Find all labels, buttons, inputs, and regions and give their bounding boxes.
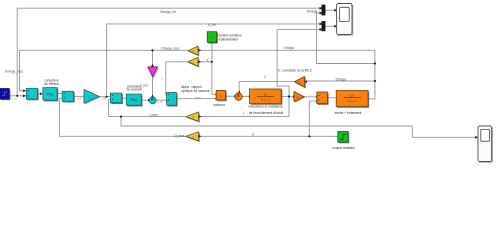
svg-text:I_mes: I_mes (149, 113, 158, 117)
svg-text:u_c: u_c (77, 97, 82, 100)
scope block bottom right (478, 126, 492, 162)
svg-text:d'alimentation: d'alimentation (219, 38, 239, 42)
label inductance et resistance (248, 105, 283, 116)
svg-text:Omega: Omega (336, 78, 347, 82)
svg-text:Cr: Cr (309, 102, 312, 106)
block couple resistant step (green) (338, 132, 349, 143)
svg-text:de courant: de courant (126, 88, 141, 92)
wire i_ref tap to mux2 input1 (107, 24, 320, 97)
block inductance transfer fn (orange) (250, 89, 282, 104)
svg-text:Z.s + 1: Z.s + 1 (261, 98, 271, 102)
wire magenta output to circle1 (152, 77, 154, 97)
block yellow gain triangle1 Omega (188, 46, 199, 56)
wire mux2 to scope (325, 25, 335, 27)
label alpha rapport cyclique (181, 85, 210, 93)
block sum1 (cyan) (26, 88, 38, 100)
label tension continue d'alimentation (219, 34, 242, 42)
svg-text:1/J: 1/J (350, 94, 355, 98)
wire sum3 to PI2 (122, 97, 126, 99)
wire mux1 to scope (325, 9, 335, 11)
wire triangle2 output to alpha block (166, 62, 188, 95)
wire Omega to mux1 input2 (317, 13, 375, 64)
block hacheur (orange product) (216, 90, 226, 100)
svg-text:PI(s): PI(s) (130, 98, 137, 102)
wire PI2 to circle1 (141, 99, 148, 101)
block circle sum (cyan) (149, 97, 156, 104)
wire gain triangle to sum3 (99, 96, 110, 98)
block inertie transfer fn (orange) (336, 91, 369, 108)
block alpha saturation (cyan) (167, 93, 178, 107)
svg-text:U_ref: U_ref (208, 23, 216, 27)
svg-text:O_mes: O_mes (174, 134, 185, 138)
block PI correcteur de courant (126, 94, 142, 106)
wire orange sum to inertie (327, 97, 335, 99)
wire I_mes triangle output to sum3 (109, 99, 186, 116)
svg-text:Omega_mes: Omega_mes (161, 47, 180, 51)
block magenta gain (down) (148, 67, 159, 78)
block gain triangle (cyan) (84, 90, 100, 104)
svg-text:u_est: u_est (140, 84, 148, 88)
wire triangle3 to orange sum (304, 96, 316, 98)
wire O_mes line from couple resistant area (59, 98, 338, 136)
wire step output to sum1 (9, 95, 26, 97)
wire alpha block to hacheur (176, 98, 215, 100)
arrowheads (23, 7, 478, 139)
svg-text:J.s + 1: J.s + 1 (348, 99, 357, 103)
block yellow gain triangle2 supply (188, 57, 199, 67)
svg-text:couple resistant: couple resistant (332, 146, 354, 150)
svg-text:-K-: -K- (88, 95, 92, 99)
block sum2 (cyan) (62, 91, 74, 102)
svg-text:1/z: 1/z (263, 93, 268, 97)
svg-text:Omega_mes: Omega_mes (5, 69, 24, 73)
block sum3 (cyan) (110, 93, 122, 103)
wire back-emf triangle output to circle sum (239, 82, 294, 93)
label correcteur de courant (126, 84, 142, 91)
wire current tap down to I_mes triangle (199, 97, 289, 117)
block circle sum electrical (orange) (235, 93, 242, 100)
svg-text:a_ref: a_ref (157, 100, 163, 104)
block PI correcteur de vitesse (43, 88, 58, 101)
block yellow gain O_mes (186, 132, 199, 142)
mux block 2 (322, 21, 326, 31)
svg-text:O_ref: O_ref (11, 98, 17, 101)
svg-text:Omega: Omega (307, 10, 318, 14)
svg-text:Omega: Omega (283, 46, 294, 50)
wire back-emf branch (307, 80, 375, 82)
wire hacheur to circle2 (226, 95, 235, 97)
block back-emf gain triangle (orange, left) (295, 77, 306, 88)
wire couple resistant branch up to orange sum (309, 101, 316, 136)
svg-text:hacheur: hacheur (213, 103, 225, 107)
wire circle2 to induct block (242, 95, 249, 97)
label correcteur de vitesse (44, 79, 59, 86)
svg-text:cyclique du hacheur: cyclique du hacheur (181, 89, 210, 93)
svg-text:pwm: pwm (195, 96, 200, 99)
wire Omega feedback to sum1 (20, 50, 188, 90)
svg-text:i_ref: i_ref (101, 96, 107, 100)
svg-text:u: u (264, 75, 266, 79)
block yellow gain I_mes (186, 112, 199, 122)
wire sum1 to PI1 (38, 93, 43, 95)
wire circle1 to alpha block (156, 99, 166, 101)
wire sum2 to gain triangle (74, 95, 84, 97)
wire current to bottom scope (121, 117, 476, 138)
svg-text:de vitesse: de vitesse (44, 82, 59, 86)
mux block 1 (322, 5, 326, 16)
svg-text:de l'enroulement d'induit: de l'enroulement d'induit (249, 111, 283, 115)
scope block top (337, 4, 353, 36)
wire PI1 to sum2 (57, 92, 62, 94)
wire magenta tap from Omega line (152, 50, 154, 66)
svg-text:PI(s): PI(s) (47, 92, 54, 96)
wire supply branch to triangle2 (199, 61, 212, 63)
block green supply constant (207, 32, 217, 43)
block gain k triangle (orange) (294, 92, 305, 103)
svg-text:+: + (211, 36, 213, 40)
block step Omega_ref (dark blue) (0, 89, 10, 100)
wire induct to gain triangle3 (281, 95, 293, 97)
svg-text:inductance et resistance: inductance et resistance (248, 105, 283, 109)
svg-text:Omega_ref: Omega_ref (160, 10, 176, 14)
wire Omega_ref feedback to mux1 (17, 8, 319, 96)
wire Omega bus from inertie output (200, 50, 375, 99)
block orange sum mechanical (317, 92, 328, 104)
svg-text:k : constante de la MCC: k : constante de la MCC (278, 69, 313, 73)
wire i_mes tap to mux2 input2 (277, 29, 319, 96)
wire green supply down to hacheur (212, 42, 216, 94)
svg-text:inertie + frottement: inertie + frottement (335, 111, 362, 115)
